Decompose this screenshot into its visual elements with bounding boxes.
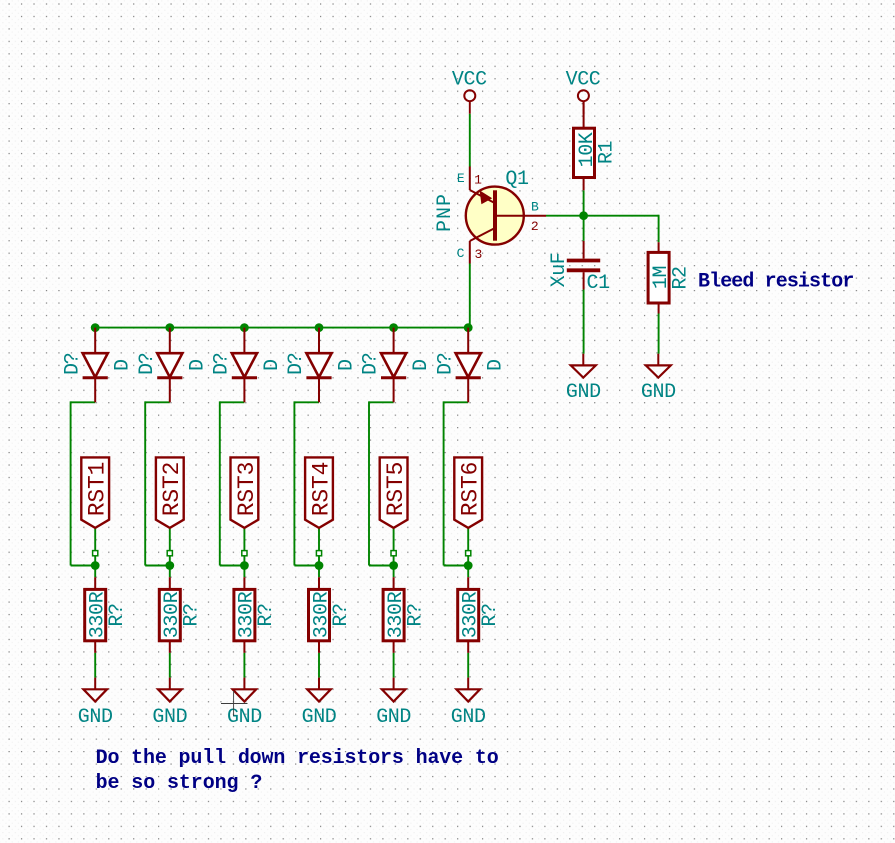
- resistor R? col 5 (330R): [383, 577, 404, 653]
- R2 value text 1M: [650, 266, 673, 289]
- junction on bus col 4: [315, 323, 324, 332]
- wire diode 2 to RST2 net: [145, 401, 170, 565]
- power symbol GND col 2: [152, 678, 187, 729]
- svg-text:R?: R?: [181, 603, 204, 626]
- svg-text:1: 1: [474, 172, 482, 187]
- diode D? col 3: [232, 328, 257, 403]
- svg-text:D: D: [261, 359, 284, 371]
- wire Q1 base to R2 corner: [546, 215, 659, 242]
- svg-text:D?: D?: [360, 353, 383, 375]
- wire label RST1 to node: [94, 529, 96, 578]
- svg-text:RST3: RST3: [234, 462, 260, 516]
- svg-text:R?: R?: [404, 603, 427, 626]
- Q1 pin number 1: [474, 172, 482, 187]
- svg-text:2: 2: [531, 219, 539, 234]
- svg-text:GND: GND: [152, 706, 187, 729]
- junction col 2: [165, 561, 174, 570]
- wire diode 1 to RST1 net: [71, 401, 96, 565]
- svg-text:Q1: Q1: [505, 168, 529, 191]
- diode value D col 1: [112, 359, 135, 371]
- svg-text:RST2: RST2: [159, 462, 185, 516]
- R? value text 330R col 2: [161, 591, 184, 638]
- wire end square col 4: [316, 551, 321, 556]
- resistor R? col 3 (330R): [234, 577, 255, 653]
- global label RST4: [305, 457, 334, 528]
- power symbol GND col 5: [376, 678, 411, 729]
- anchor crosshair: [221, 691, 248, 716]
- svg-text:3: 3: [474, 247, 482, 262]
- svg-text:D: D: [410, 359, 433, 371]
- diode D? col 1: [83, 328, 108, 403]
- junction col 5: [389, 561, 398, 570]
- power symbol GND col 4: [302, 678, 337, 729]
- svg-text:C1: C1: [587, 272, 611, 295]
- global label RST3: [231, 457, 260, 528]
- junction on bus col 5: [389, 323, 398, 332]
- diode value D col 6: [485, 359, 508, 371]
- svg-text:RST1: RST1: [85, 462, 111, 516]
- global label RST5: [380, 457, 409, 528]
- diode D? col 4: [306, 328, 331, 403]
- svg-text:D: D: [186, 359, 209, 371]
- svg-text:B: B: [531, 200, 539, 215]
- resistor R? col 4 (330R): [309, 577, 330, 653]
- svg-text:D?: D?: [285, 353, 308, 375]
- svg-text:R1: R1: [595, 141, 618, 165]
- diode reference D? col 1: [61, 353, 84, 375]
- power symbol GND col 6: [451, 678, 486, 729]
- R1 reference text: [595, 141, 618, 165]
- svg-text:RST6: RST6: [458, 462, 484, 516]
- wire R1 bottom to junction: [583, 190, 585, 215]
- R? value text 330R col 6: [460, 591, 483, 638]
- power symbol GND (C1): [566, 354, 601, 404]
- svg-text:C: C: [457, 246, 465, 261]
- svg-text:E: E: [457, 171, 465, 186]
- diode reference D? col 2: [136, 353, 159, 375]
- svg-text:R2: R2: [669, 266, 692, 289]
- R? reference text col 6: [479, 603, 502, 626]
- horizontal bus wire: [95, 327, 470, 329]
- wire label RST2 to node: [169, 529, 171, 578]
- svg-text:D?: D?: [211, 353, 234, 375]
- diode D? col 2: [157, 328, 182, 403]
- wire R2 bottom to GND: [658, 314, 660, 354]
- wire end square col 6: [466, 551, 471, 556]
- wire R? to GND col 6: [467, 653, 469, 678]
- wire end square col 1: [93, 551, 98, 556]
- capacitor C1: [567, 241, 600, 290]
- svg-text:PNP: PNP: [434, 193, 457, 232]
- junction on bus col 1: [91, 323, 100, 332]
- R? value text 330R col 1: [87, 591, 110, 638]
- note text line 2: [96, 772, 263, 795]
- wire label RST3 to node: [243, 529, 245, 578]
- svg-text:VCC: VCC: [452, 68, 487, 91]
- R1 value text 10K: [576, 132, 599, 167]
- C1 value text XuF: [548, 253, 571, 288]
- resistor R1: [574, 101, 595, 190]
- svg-text:D?: D?: [61, 353, 84, 375]
- diode reference D? col 6: [434, 353, 457, 375]
- svg-text:be so strong ?: be so strong ?: [96, 772, 263, 795]
- svg-text:VCC: VCC: [566, 68, 601, 91]
- resistor R2: [648, 242, 669, 313]
- junction on bus col 3: [240, 323, 249, 332]
- wire label RST4 to node: [318, 529, 320, 578]
- wire R? to GND col 1: [94, 653, 96, 678]
- wire label RST6 to node: [467, 529, 469, 578]
- wire diode 3 to RST3 net: [220, 401, 245, 565]
- diode value D col 2: [186, 359, 209, 371]
- Q1 pin name C: [457, 246, 465, 261]
- diode value D col 4: [336, 359, 359, 371]
- global label RST6: [454, 457, 483, 528]
- R? value text 330R col 3: [236, 591, 259, 638]
- wire end square col 3: [242, 551, 247, 556]
- diode D? col 6: [456, 328, 481, 403]
- svg-text:RST5: RST5: [383, 462, 409, 516]
- R? reference text col 1: [106, 603, 129, 626]
- power symbol GND col 3: [227, 678, 262, 729]
- svg-text:XuF: XuF: [548, 253, 571, 288]
- junction col 3: [240, 561, 249, 570]
- resistor R? col 6 (330R): [458, 577, 479, 653]
- global label RST1: [81, 457, 110, 528]
- svg-text:R?: R?: [255, 603, 278, 626]
- svg-text:D: D: [112, 359, 135, 371]
- svg-text:D?: D?: [434, 353, 457, 375]
- transistor Q1 (PNP) body: [466, 167, 546, 264]
- svg-text:D: D: [336, 359, 359, 371]
- R? reference text col 2: [181, 603, 204, 626]
- power symbol GND (R2): [641, 354, 676, 404]
- svg-text:GND: GND: [566, 381, 601, 404]
- Q1 pin number 3: [474, 247, 482, 262]
- resistor R? col 2 (330R): [159, 577, 180, 653]
- wire end square col 2: [167, 551, 172, 556]
- svg-text:Do the pull down resistors hav: Do the pull down resistors have to: [96, 747, 499, 770]
- wire end square col 5: [391, 551, 396, 556]
- note text Bleed resistor: [698, 270, 853, 293]
- R? value text 330R col 5: [385, 591, 408, 638]
- power symbol VCC (emitter supply): [452, 68, 487, 114]
- R? value text 330R col 4: [310, 591, 333, 638]
- Q1 pin name E: [457, 171, 465, 186]
- junction base-R1-C1: [579, 211, 588, 220]
- wire R? to GND col 4: [318, 653, 320, 678]
- svg-text:GND: GND: [78, 706, 113, 729]
- power symbol GND col 1: [78, 678, 113, 729]
- wire label RST5 to node: [393, 529, 395, 578]
- svg-text:GND: GND: [302, 706, 337, 729]
- Q1 value text PNP: [434, 193, 457, 232]
- diode reference D? col 4: [285, 353, 308, 375]
- wire Q1 collector to bus: [469, 264, 471, 328]
- junction col 1: [91, 561, 100, 570]
- wire C1 bottom to GND: [583, 290, 585, 354]
- wire diode 6 to RST6 net: [444, 401, 469, 565]
- wire junction to C1 top: [583, 216, 585, 241]
- diode reference D? col 3: [211, 353, 234, 375]
- svg-text:R?: R?: [330, 603, 353, 626]
- svg-text:D?: D?: [136, 353, 159, 375]
- R2 reference text: [669, 266, 692, 289]
- junction on bus col 2: [165, 323, 174, 332]
- wire diode 4 to RST4 net: [294, 401, 319, 565]
- wire R? to GND col 2: [169, 653, 171, 678]
- R? reference text col 4: [330, 603, 353, 626]
- global label RST2: [156, 457, 185, 528]
- svg-text:GND: GND: [451, 706, 486, 729]
- wire R? to GND col 5: [393, 653, 395, 678]
- junction on bus col 6: [464, 323, 473, 332]
- wire VCC to Q1 emitter: [469, 114, 471, 167]
- R? reference text col 5: [404, 603, 427, 626]
- junction col 4: [315, 561, 324, 570]
- C1 reference text: [587, 272, 611, 295]
- diode D? col 5: [381, 328, 406, 403]
- note text line 1: [96, 747, 499, 770]
- Q1 pin name B: [531, 200, 539, 215]
- junction col 6: [464, 561, 473, 570]
- svg-text:D: D: [485, 359, 508, 371]
- Q1 pin number 2: [531, 219, 539, 234]
- diode value D col 5: [410, 359, 433, 371]
- wire R? to GND col 3: [243, 653, 245, 678]
- svg-text:GND: GND: [376, 706, 411, 729]
- resistor R? col 1 (330R): [85, 577, 106, 653]
- svg-text:R?: R?: [479, 603, 502, 626]
- svg-text:RST4: RST4: [308, 462, 334, 516]
- power symbol VCC (R1 supply): [566, 68, 601, 114]
- diode value D col 3: [261, 359, 284, 371]
- Q1 reference text: [505, 168, 529, 191]
- R? reference text col 3: [255, 603, 278, 626]
- svg-text:R?: R?: [106, 603, 129, 626]
- svg-text:GND: GND: [641, 381, 676, 404]
- wire diode 5 to RST5 net: [369, 401, 394, 565]
- diode reference D? col 5: [360, 353, 383, 375]
- svg-text:Bleed resistor: Bleed resistor: [698, 270, 853, 293]
- svg-text:GND: GND: [227, 706, 262, 729]
